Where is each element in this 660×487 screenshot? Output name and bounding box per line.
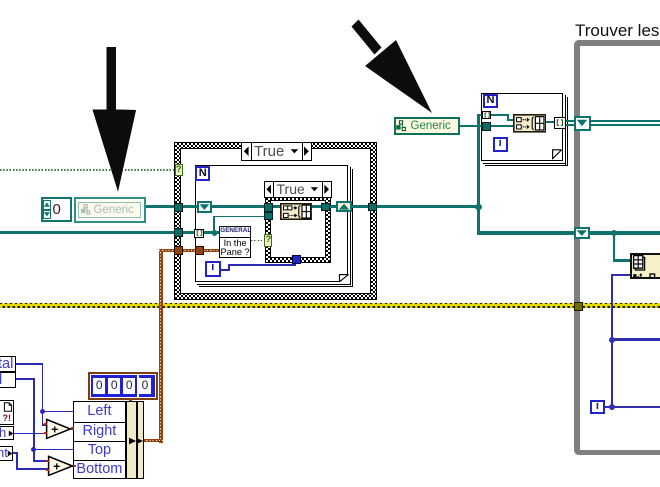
svg-text:+: +: [53, 460, 60, 474]
svg-text:+: +: [51, 422, 58, 436]
